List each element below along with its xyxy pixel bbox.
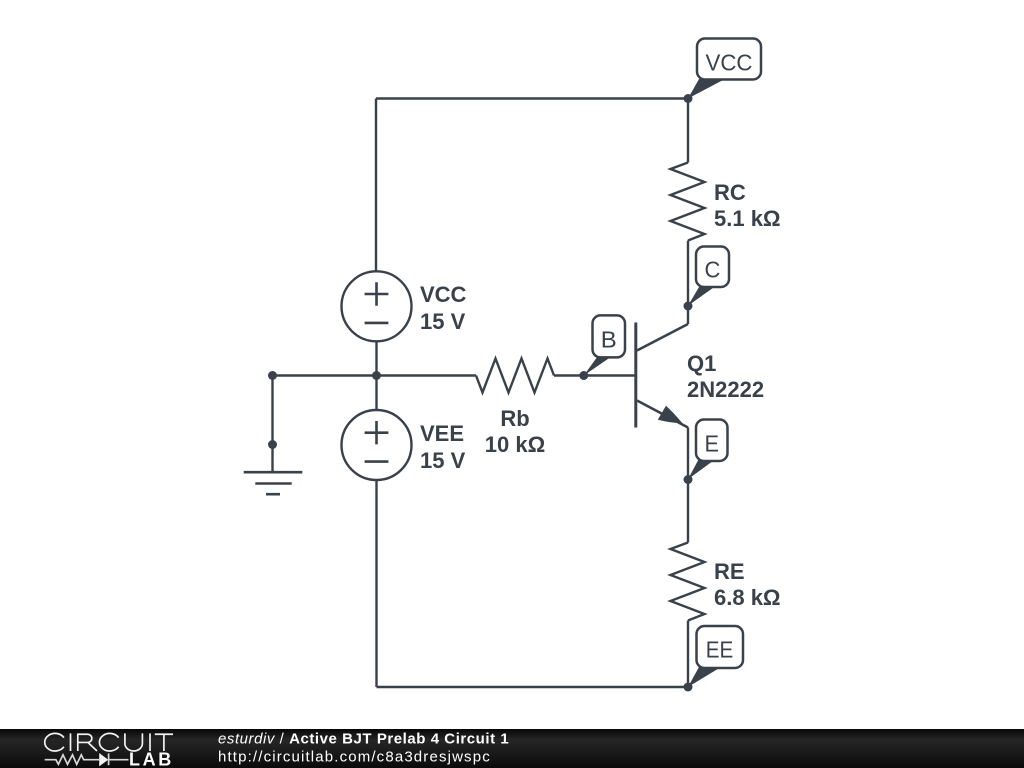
svg-text:VEE: VEE — [420, 421, 464, 446]
svg-text:EE: EE — [706, 637, 734, 663]
footer logo resistor-diode glyph — [45, 753, 129, 765]
node C dot — [684, 302, 693, 311]
voltage source VEE plus minus signs — [365, 421, 389, 462]
node EE dot — [684, 683, 693, 692]
svg-text:http://circuitlab.com/c8a3dres: http://circuitlab.com/c8a3dresjwspc — [218, 749, 491, 766]
wire node E down to RE top — [687, 480, 689, 543]
svg-text:VCC: VCC — [706, 49, 753, 75]
wire ground node down to ground symbol — [271, 376, 273, 473]
wire VEE source bottom down left rail — [375, 480, 377, 687]
svg-text:RC: RC — [714, 180, 746, 205]
node B dot — [579, 371, 588, 380]
label VCC source value — [420, 282, 467, 334]
wire VCC source bottom to junction — [375, 342, 377, 376]
wire middle horizontal from ground node to Rb — [273, 374, 477, 376]
wire VCC node down to RC top — [687, 99, 689, 163]
wire RE bottom to EE node — [687, 621, 689, 688]
footer CircuitLab logo CIRCUIT (hand-drawn thin letters) — [45, 733, 173, 751]
voltage source VCC circle — [342, 271, 412, 341]
svg-text:esturdiv / Active BJT Prelab 4: esturdiv / Active BJT Prelab 4 Circuit 1 — [218, 731, 509, 748]
net flag EE — [688, 626, 743, 687]
svg-text:6.8 kΩ: 6.8 kΩ — [714, 585, 781, 610]
voltage source VEE circle — [342, 410, 412, 480]
wire left rail vertical down to VCC source — [375, 99, 377, 272]
node VCC dot — [684, 94, 693, 103]
voltage source VCC plus minus signs — [365, 282, 389, 323]
label RC value — [714, 180, 781, 231]
wire emitter bend to node E — [687, 428, 689, 480]
node E dot — [684, 475, 693, 484]
transistor Q1 2N2222 — [636, 323, 688, 428]
footer bar — [0, 729, 1024, 768]
node junction mid dot — [372, 371, 381, 380]
wire top horizontal from left rail to VCC node — [376, 97, 688, 99]
label Rb value — [485, 406, 545, 457]
node junction dots — [268, 94, 693, 692]
svg-text:C: C — [705, 257, 721, 283]
wire Rb to base node to transistor base — [554, 374, 635, 376]
label VEE source value — [420, 421, 466, 473]
svg-text:RE: RE — [714, 559, 745, 584]
svg-text:2N2222: 2N2222 — [687, 377, 764, 402]
wire junction down to VEE source top — [375, 376, 377, 411]
svg-text:VCC: VCC — [420, 282, 467, 307]
svg-text:10 kΩ: 10 kΩ — [485, 432, 545, 457]
label Q1 2N2222 — [687, 351, 764, 402]
resistor RC zigzag — [671, 163, 705, 241]
svg-text:5.1 kΩ: 5.1 kΩ — [714, 206, 781, 231]
label RE value — [714, 559, 781, 610]
net flag E — [688, 420, 728, 480]
svg-text:LAB: LAB — [129, 750, 174, 768]
net flag B — [584, 315, 625, 375]
svg-text:Q1: Q1 — [687, 351, 716, 376]
net flag VCC — [688, 39, 761, 99]
node ground terminal dot — [268, 440, 277, 449]
net flag C — [688, 247, 729, 306]
resistor RE zigzag — [671, 543, 705, 621]
ground symbol bars — [244, 472, 303, 494]
footer logo diode triangle — [99, 753, 108, 766]
node ground-left dot — [268, 371, 277, 380]
wire RC bottom to node C to collector bend — [687, 241, 689, 325]
svg-text:15 V: 15 V — [420, 309, 466, 334]
svg-text:E: E — [705, 430, 720, 456]
wire bottom horizontal to EE node — [377, 686, 689, 688]
svg-text:Rb: Rb — [500, 406, 529, 431]
resistor Rb zigzag — [476, 359, 554, 393]
svg-text:B: B — [601, 326, 617, 352]
svg-text:15 V: 15 V — [420, 448, 466, 473]
